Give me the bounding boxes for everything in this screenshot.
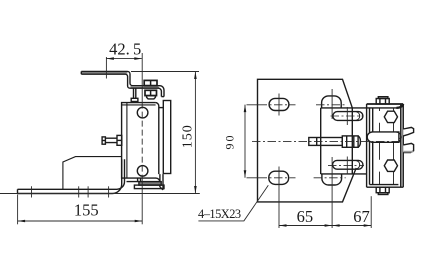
rod shank (309, 138, 343, 146)
body centerline dashed (141, 103, 143, 179)
bottom left tab (127, 178, 141, 182)
upper stadium horizontal centerline (331, 115, 364, 117)
stem foot (131, 98, 138, 101)
side valve block (117, 135, 122, 145)
body left extension line for 67 (370, 196, 372, 228)
body top edge (367, 103, 404, 105)
lower right tab (403, 143, 413, 152)
arrow 90 top (244, 105, 247, 113)
body inner top line (122, 104, 156, 106)
dim 65-67 line (279, 225, 371, 227)
bottom small bolt cap (378, 193, 388, 195)
rod collar facets (347, 136, 354, 147)
bracket arm flange dark band (131, 86, 160, 88)
notch inner arc (396, 132, 401, 142)
lower column vertical centerline + extension (331, 157, 333, 228)
upper stadium tick (346, 107, 348, 125)
flange column left edge (320, 108, 322, 174)
base hole tick 4 (108, 186, 110, 197)
body left edge outer (366, 104, 368, 187)
upper-left slot horizontal centerline (259, 104, 296, 106)
arrow 67 right (364, 224, 372, 227)
base plate bottom line with bend (18, 159, 122, 193)
lower hex bolt head (384, 160, 397, 171)
top small bolt facets (380, 99, 386, 105)
lower flange slot stadium (333, 160, 363, 169)
bottom small bolt (376, 187, 389, 193)
slot hole lower-left (269, 171, 289, 184)
svg-text:150: 150 (181, 124, 196, 148)
lower stadium tick (346, 157, 348, 175)
right flange plate (163, 101, 170, 174)
arrow 150 bottom (194, 186, 197, 194)
arrow 90 bottom (244, 170, 247, 178)
body centerline solid top (141, 53, 143, 103)
lower-left slot horizontal centerline (259, 177, 296, 179)
main rod axis centerline (252, 140, 402, 142)
ground line (0, 193, 200, 195)
body left edge mid (369, 108, 371, 185)
dim 150 line (194, 72, 196, 194)
bracket arm dark band fill (81, 72, 127, 74)
top bolt head circle (137, 107, 148, 118)
arrow 65 left (279, 224, 287, 227)
flange column right edge (351, 108, 353, 174)
bottom wide plate (134, 185, 164, 189)
body left edge inner (372, 108, 374, 185)
flange bottom shelf line (321, 173, 367, 175)
arrow 155 left (18, 220, 26, 223)
body outline (122, 103, 156, 179)
arrow 65 right (325, 224, 333, 227)
body right edge pair (401, 104, 403, 187)
rear hump outline (63, 157, 122, 190)
leader line 4-15X23 (198, 185, 268, 221)
base plate left end cap (17, 189, 19, 193)
lower-left slot vertical centerline + 65 extension (278, 167, 280, 229)
body centerline solid bottom / 155 right extension (141, 178, 143, 224)
lower stadium inner arc (356, 161, 359, 169)
side valve block mid line (117, 139, 122, 141)
upper nut facet (150, 80, 152, 85)
lower arch horizontal centerline (314, 177, 346, 179)
dim 155 line (18, 220, 143, 222)
body bottom edge (367, 186, 404, 188)
upper-left slot vertical centerline (278, 94, 280, 116)
bracket arm right curl bottom cap (161, 96, 164, 98)
bracket arm Z-profile top line (81, 71, 164, 96)
dim 42.5 line (106, 58, 141, 60)
dim 150 top extension (131, 71, 199, 73)
upper arch washer (322, 96, 342, 108)
rod dome end (358, 136, 360, 147)
rod collar (342, 136, 358, 147)
body top-right corner and right edge (155, 103, 158, 175)
stem under flange (134, 88, 136, 98)
bottom small bolt facets (380, 187, 386, 193)
arrow 155 right (135, 220, 143, 223)
base hole tick 1 (31, 186, 33, 197)
top small bolt (376, 99, 389, 105)
dim 90 line (244, 105, 246, 178)
slot hole upper-left (269, 98, 289, 110)
bottom dark spacer plate (139, 182, 161, 186)
bottom bolt head circle (137, 166, 148, 177)
base hole tick 3 (87, 186, 89, 197)
lower nut facet (150, 90, 152, 95)
side valve stem (105, 138, 117, 142)
dim 155 left extension (17, 195, 19, 225)
upper arch horizontal centerline (316, 104, 346, 106)
svg-text:155: 155 (74, 200, 99, 219)
notch right continuation lines (399, 138, 401, 141)
inner guide lines lower (380, 142, 394, 184)
arrow 42.5 left (106, 57, 114, 60)
upper column vertical centerline (331, 89, 333, 119)
cone washer (147, 96, 156, 99)
rod tip cap (316, 138, 318, 146)
right foot lines (160, 174, 163, 190)
lower arch washer (322, 174, 342, 185)
svg-text:65: 65 (297, 207, 314, 226)
dim 90 extension ticks (247, 105, 259, 178)
arrow 67 left (332, 224, 340, 227)
upper flange slot stadium (333, 112, 363, 121)
arrow 42.5 right (134, 57, 142, 60)
body top-right shelf (159, 107, 164, 109)
inner guide lines upper (380, 108, 394, 132)
top small bolt cap (378, 97, 388, 99)
svg-text:67: 67 (353, 207, 370, 226)
svg-text:42. 5: 42. 5 (109, 39, 141, 58)
side valve cap mid line (102, 140, 105, 142)
body bottom inner edge (370, 184, 399, 186)
svg-text:4–15X23: 4–15X23 (198, 207, 241, 221)
base hole tick 2 (78, 186, 80, 197)
plate outline (258, 79, 357, 202)
svg-text:90: 90 (223, 134, 237, 150)
side valve cap (102, 137, 105, 144)
lower stadium horizontal centerline (328, 165, 364, 167)
arm hole tick (105, 57, 107, 79)
upper nut on flange (144, 80, 157, 85)
upper right tab (403, 127, 413, 135)
bracket arm Z-profile bottom line (81, 74, 161, 96)
arrow 150 top (194, 72, 197, 80)
lower nut under flange (145, 90, 157, 95)
upper stadium inner arc (356, 112, 359, 120)
bracket arm left end cap (80, 71, 82, 74)
flange top shelf line (321, 107, 399, 109)
lower tab base bar (404, 151, 413, 153)
body bottom right curl (156, 178, 160, 182)
body cap corner arc (396, 104, 403, 108)
body inner left wall (126, 103, 128, 179)
upper hex bolt head (384, 111, 397, 122)
central notch slot (367, 132, 399, 142)
base plate top line with bend (18, 159, 125, 189)
